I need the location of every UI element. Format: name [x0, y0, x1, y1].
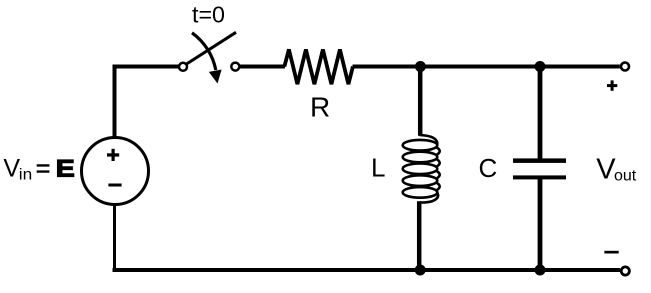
- svg-text:=: =: [36, 155, 51, 183]
- svg-text:R: R: [310, 92, 330, 123]
- svg-text:L: L: [371, 153, 385, 183]
- svg-text:E: E: [56, 156, 75, 183]
- svg-text:t=0: t=0: [192, 2, 225, 28]
- svg-text:in: in: [19, 167, 33, 184]
- svg-text:C: C: [479, 153, 498, 183]
- svg-text:out: out: [614, 168, 637, 185]
